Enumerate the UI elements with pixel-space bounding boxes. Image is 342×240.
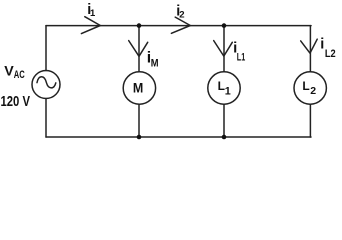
svg-text:1: 1 xyxy=(225,85,231,97)
svg-text:120 V: 120 V xyxy=(1,93,31,110)
svg-text:L1: L1 xyxy=(237,52,245,64)
svg-text:V: V xyxy=(4,63,14,79)
svg-text:2: 2 xyxy=(310,85,316,97)
svg-text:1: 1 xyxy=(90,7,95,18)
svg-text:L: L xyxy=(302,79,309,93)
svg-text:M: M xyxy=(151,58,159,70)
svg-text:AC: AC xyxy=(14,69,25,81)
svg-text:M: M xyxy=(133,81,143,96)
svg-text:2: 2 xyxy=(179,9,184,20)
svg-text:i: i xyxy=(320,37,324,53)
svg-text:L2: L2 xyxy=(325,48,336,60)
